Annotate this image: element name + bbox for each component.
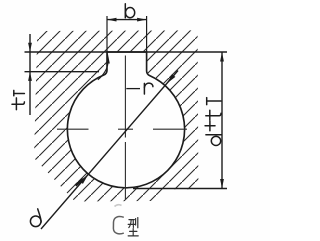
t1 dimension line (29, 34, 31, 115)
label 型 (drawn) (128, 218, 138, 236)
keyway top line / t1 + d+t1 top extension line (25, 51, 228, 53)
label C (113, 217, 123, 234)
b arrow right (137, 18, 147, 22)
keyway corner leader arrow (106, 52, 110, 63)
vertical centerline (124, 56, 126, 200)
b extension line right (146, 16, 148, 52)
r label shelf (126, 88, 140, 90)
d+t1 dimension line (221, 52, 223, 189)
horizontal centerline (57, 128, 187, 130)
b dimension line (107, 19, 147, 21)
t1 bottom extension line (bore top tangent) (25, 71, 100, 73)
d arrow upper-right (points down-left at bore edge) (167, 74, 176, 84)
d diameter line (41, 71, 178, 230)
label r (144, 83, 153, 94)
d+t1 bottom extension line (bore bottom tangent) (133, 188, 227, 190)
keyway corner leader tail (98, 63, 108, 80)
label d (30, 209, 41, 227)
label t1 (12, 90, 24, 109)
label b (125, 4, 134, 18)
b arrow left (107, 18, 117, 22)
d arrow lower-left (points up-right at bore edge) (80, 174, 89, 184)
hatched hub section (block with bore + keyway holes) (34, 30, 198, 201)
t1 arrow top (points down to y=52) (28, 43, 32, 52)
bore circle with keyway outline (67, 52, 184, 188)
t1 arrow bottom (points up to y=71.7) (28, 72, 32, 81)
label d+t1 (205, 98, 221, 146)
b extension line left (106, 16, 108, 52)
smudge above C (115, 205, 122, 207)
d+t1 arrow bottom (220, 179, 224, 189)
d+t1 arrow top (220, 52, 224, 62)
